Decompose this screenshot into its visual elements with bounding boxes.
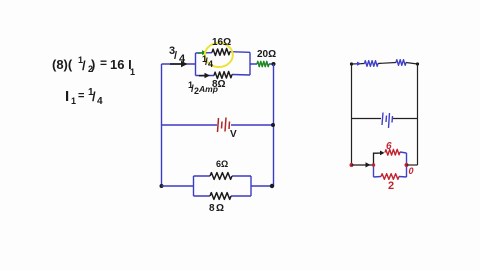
svg-text:V: V [230,129,237,140]
node D dot [270,184,274,188]
svg-text:4: 4 [179,53,186,65]
svg-text:I: I [65,88,69,105]
label 3/4 [169,45,186,65]
wire middle branch left [162,124,218,126]
equation (8)(1/2) = 16 I1 [52,55,135,77]
resistor R1 16ohm [212,49,230,56]
wire box1 top branch [196,52,251,53]
svg-text:4: 4 [97,96,103,107]
equation I1 = 1/4 [65,87,103,107]
wire box2 to node D [251,185,272,187]
svg-text:0: 0 [409,166,414,176]
current arrow I2 [199,73,210,78]
node G dot (red) [350,163,354,167]
resistor R6 (blue) [365,61,379,67]
wire box2 bottom branch [194,195,252,197]
node E dot (right circuit top-left) [350,62,353,65]
svg-text:(8)(: (8)( [52,57,73,72]
resistor R4 6ohm [210,173,232,180]
wire parallel box1 right edge [249,52,251,75]
svg-text:1: 1 [71,96,76,106]
wire box3 left edge upper (black) [374,153,378,165]
svg-text:16 I: 16 I [110,57,132,72]
wire top input segment [162,63,197,65]
highlight circle (yellow) [205,43,233,67]
wire right vertical (right circuit) [417,64,419,165]
label 1/4 [202,54,213,69]
wire top rail (right circuit) [352,63,418,65]
wire parallel box2 right edge [250,176,252,196]
wire node H to right vertical [407,164,418,166]
svg-text:8Ω: 8Ω [209,203,226,214]
node B dot [271,123,275,127]
svg-text:=: = [78,90,84,102]
wire to parallel box2 [162,185,194,187]
wire box3 right edge (blue) [406,153,408,177]
wire middle rail (right circuit) [352,118,418,120]
resistor R5 8ohm [210,193,231,200]
label 1/2 Amp [188,80,218,96]
svg-text:6: 6 [386,141,392,152]
wire box2 top branch [194,175,252,177]
wire with arrow to box3 [352,162,374,167]
wire left vertical (right circuit) [351,64,353,165]
svg-text:1: 1 [130,67,135,77]
current arrow (blue, top rail) [355,62,362,66]
resistor R9 2 (red) [381,174,399,180]
svg-text:16Ω: 16Ω [212,37,231,48]
node H dot (red) [405,163,409,167]
wire right vertical (left circuit) [273,64,275,186]
svg-text:Amp: Amp [198,84,218,94]
resistor R2 8ohm [214,72,232,79]
svg-text:/: / [174,50,177,62]
svg-text:6Ω: 6Ω [216,159,228,169]
node A dot [272,62,276,66]
svg-text:4: 4 [208,59,213,69]
resistor R3 20ohm (green) [257,61,269,66]
battery V (red) [218,118,230,133]
svg-text:=: = [100,56,107,70]
battery V2 (blue) [382,113,393,129]
wire box3 left edge lower (blue) [373,165,375,177]
current arrow 3/4 [170,61,188,67]
wire box1 bottom branch [196,75,251,76]
svg-text:/: / [82,58,86,73]
svg-text:/: / [92,89,96,104]
resistor R7 (blue) [396,60,406,66]
wire parallel box1 left edge [195,53,197,76]
resistor R8 6 (red) [385,149,400,155]
wire middle branch right [231,124,274,126]
svg-text:): ) [91,57,95,72]
wire left vertical (left circuit) [161,64,163,186]
current arrow box3 top [377,151,385,156]
wire box3 bottom branch (blue) [374,176,407,179]
node F dot (right circuit top-right) [416,62,419,65]
svg-text:2: 2 [388,180,394,192]
wire parallel box2 left edge [193,176,195,196]
node box3 left dot [372,163,375,166]
wire box1 to R3 [250,63,274,65]
svg-text:20Ω: 20Ω [257,49,276,60]
node C dot [160,184,164,188]
wire box3 top branch right (blue) [400,152,407,153]
current arrow I1 (green) [198,50,208,55]
